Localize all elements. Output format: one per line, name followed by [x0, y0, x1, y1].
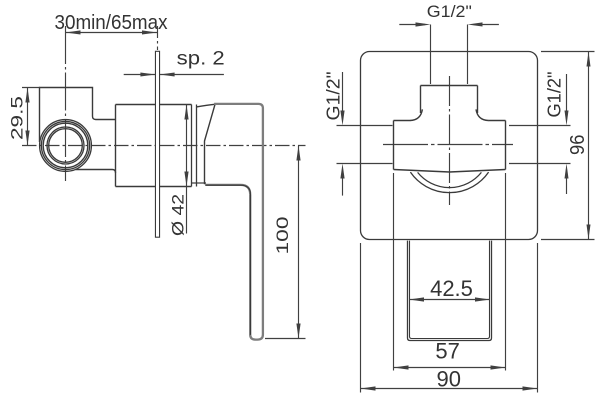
svg-text:Ø 42: Ø 42: [169, 194, 188, 236]
svg-text:G1/2": G1/2": [427, 3, 472, 21]
svg-text:57: 57: [435, 339, 459, 364]
svg-text:sp. 2: sp. 2: [177, 49, 225, 70]
svg-text:42.5: 42.5: [430, 276, 473, 301]
svg-text:G1/2": G1/2": [324, 72, 344, 121]
svg-text:90: 90: [436, 367, 460, 392]
svg-text:29.5: 29.5: [8, 96, 26, 140]
svg-text:30min/65max: 30min/65max: [55, 12, 168, 34]
svg-text:96: 96: [566, 135, 589, 156]
svg-text:G1/2": G1/2": [545, 72, 565, 118]
svg-text:100: 100: [274, 217, 292, 255]
